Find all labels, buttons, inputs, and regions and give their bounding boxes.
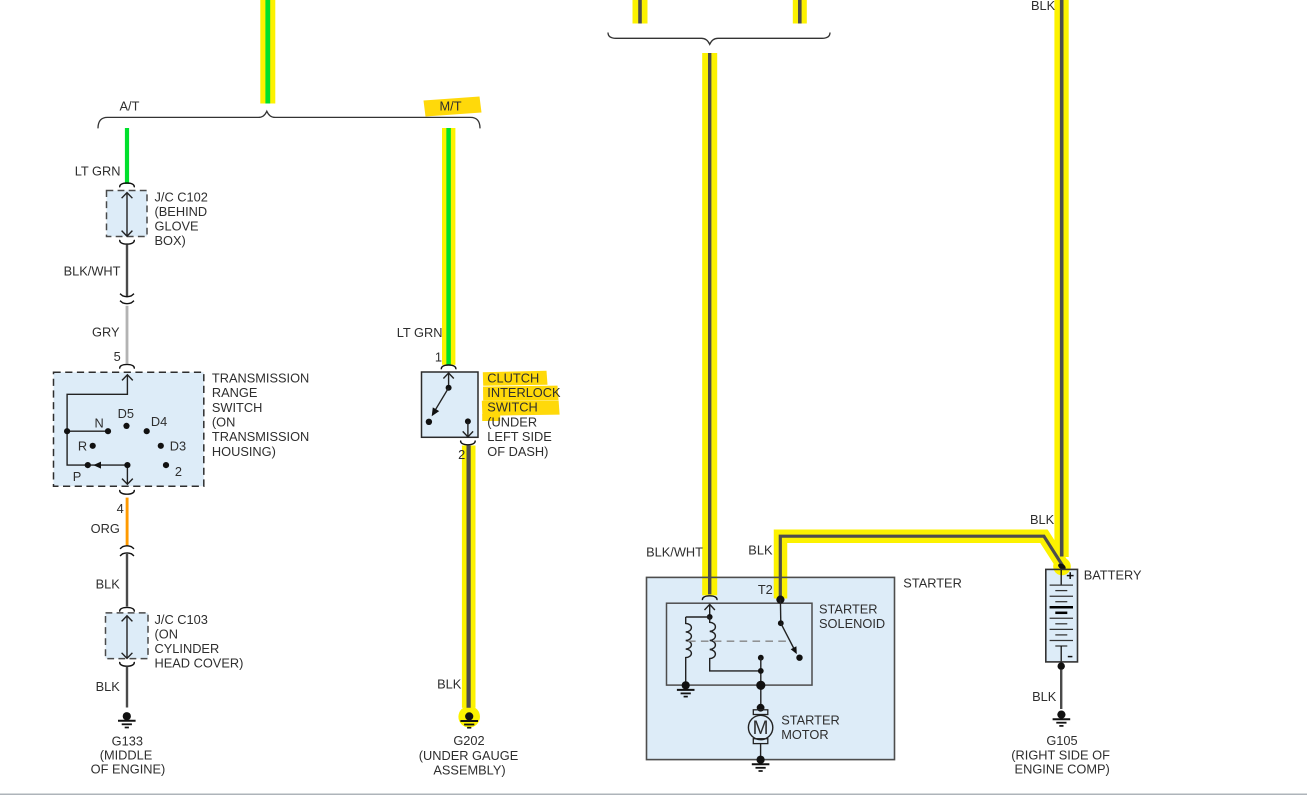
svg-text:P: P: [73, 469, 82, 484]
clutch switch right contact dot: [465, 418, 471, 424]
highlighter patch over INTERLOCK: [483, 386, 559, 401]
wire highlight: blk/wht wire to starter: [702, 53, 717, 595]
connector cup below J/C C102: [120, 240, 135, 244]
svg-text:J/C C103(ONCYLINDERHEAD COVER): J/C C103(ONCYLINDERHEAD COVER): [155, 612, 244, 670]
contact dot N: [105, 428, 111, 434]
svg-text:G133(MIDDLEOF ENGINE): G133(MIDDLEOF ENGINE): [91, 733, 166, 776]
svg-text:LT GRN: LT GRN: [397, 325, 443, 340]
wire highlight: blob over G202 ground symbol: [458, 706, 480, 728]
wire stub: top left of mid brace: [638, 0, 642, 24]
contact dot junction left: [64, 428, 70, 434]
battery minus sign: [1068, 656, 1073, 658]
starter box border: [647, 577, 895, 759]
solenoid switch movable arm: [781, 623, 795, 649]
battery top terminal: [1060, 570, 1062, 585]
wire highlight: top-left supply wire: [260, 0, 275, 104]
footer divider line: [0, 793, 1307, 795]
transmission range switch box: [54, 372, 204, 486]
wire: starter T2 to battery positive (dark core): [780, 536, 1062, 598]
brace A/T vs M/T split: [98, 111, 480, 128]
T2 post wire: [779, 600, 781, 624]
svg-text:STARTERSOLENOID: STARTERSOLENOID: [819, 602, 885, 632]
wire highlight: blob at battery positive terminal: [1053, 558, 1071, 576]
wire: lt grn supply from top (green core): [265, 0, 270, 104]
motor bottom brush cap: [753, 739, 768, 744]
solenoid entry arrow: [705, 604, 715, 617]
svg-text:BLK/WHT: BLK/WHT: [64, 264, 121, 279]
wire: A/T lt grn branch: [125, 128, 129, 184]
clutch switch top arrow: [443, 373, 453, 388]
wire: right battery feed blk (dark core): [1060, 0, 1064, 557]
brace joining stubs to blk/wht wire: [608, 33, 830, 45]
solenoid pull-in coil: [686, 617, 692, 685]
wire end blob at battery terminal: [1057, 562, 1067, 571]
clutch switch movable arm: [435, 388, 449, 411]
contact dot common: [124, 462, 130, 468]
svg-text:2: 2: [458, 447, 465, 462]
wire highlight: right blk battery feed wire: [1054, 0, 1068, 557]
svg-text:STARTER: STARTER: [903, 575, 962, 590]
connector arch at J/C C103: [120, 607, 135, 611]
battery negative terminal dot: [1058, 662, 1065, 669]
contact dot D3: [158, 443, 164, 449]
svg-text:J/C C102(BEHINDGLOVEBOX): J/C C102(BEHINDGLOVEBOX): [155, 189, 208, 248]
ground G202: [460, 712, 478, 727]
mechanical linkage dashed line: [688, 640, 786, 642]
svg-text:T2: T2: [758, 582, 773, 597]
ground at starter box bottom: [752, 756, 770, 771]
svg-text:BLK: BLK: [1032, 689, 1057, 704]
wire highlight: starter T2 to battery wire: [781, 536, 1064, 598]
svg-text:BLK: BLK: [1030, 512, 1055, 527]
svg-text:BLK/WHT: BLK/WHT: [646, 544, 703, 559]
wire stub: top right of mid brace: [798, 0, 802, 24]
battery bottom terminal: [1060, 646, 1062, 661]
clutch switch pivot dot: [446, 385, 452, 391]
contact dot D5: [123, 423, 129, 429]
clutch interlock switch box: [422, 372, 479, 437]
connector arch at transmission range switch: [120, 364, 135, 368]
clutch switch lower left contact dot: [426, 419, 432, 425]
svg-text:D3: D3: [170, 438, 186, 453]
wire BLK battery to ground: [1060, 670, 1062, 710]
solenoid switch upper contact dot: [778, 620, 784, 626]
highlighter patch over M/T label: [424, 97, 482, 117]
svg-text:ORG: ORG: [91, 521, 120, 536]
coil-motor junction dot: [758, 668, 764, 674]
svg-text:LT GRN: LT GRN: [75, 164, 121, 179]
clutch switch bottom arrow: [463, 421, 473, 437]
svg-text:A/T: A/T: [120, 99, 140, 114]
J/C C103 double arrow: [122, 616, 133, 659]
wire highlight: top stub left of mid brace: [633, 0, 648, 24]
ground G133: [118, 712, 136, 727]
T2 terminal dot: [776, 596, 784, 604]
connector cup below J/C C103: [120, 662, 135, 666]
svg-text:4: 4: [117, 501, 124, 516]
ground G105: [1053, 711, 1071, 726]
clutch switch arm arrowhead: [432, 407, 440, 416]
connector arch at solenoid feed entry: [702, 596, 717, 600]
svg-text:D5: D5: [118, 406, 134, 421]
wire to pull-in coil: [686, 616, 710, 618]
connector arch at clutch interlock switch: [441, 365, 456, 369]
motor ground wire: [760, 744, 762, 760]
svg-text:BLK: BLK: [1031, 0, 1056, 13]
motor feed contact dot: [758, 655, 764, 661]
svg-text:G105(RIGHT SIDE OFENGINE COMP): G105(RIGHT SIDE OFENGINE COMP): [1011, 733, 1110, 776]
svg-text:G202(UNDER GAUGEASSEMBLY): G202(UNDER GAUGEASSEMBLY): [419, 733, 519, 777]
solenoid top junction dot: [707, 614, 713, 620]
contact dot P: [85, 462, 91, 468]
svg-text:BLK: BLK: [96, 577, 121, 592]
junction dot on solenoid box bottom: [756, 681, 765, 690]
svg-text:M/T: M/T: [440, 99, 462, 114]
wire GRY: [126, 306, 129, 364]
svg-text:D4: D4: [151, 414, 167, 429]
svg-text:N: N: [95, 416, 104, 431]
wire highlight: top stub right of mid brace: [793, 0, 807, 24]
junction connector J/C C103 box: [106, 613, 149, 659]
wire BLK/WHT: [126, 245, 128, 298]
wire: clutch switch blk ground wire (dark core): [467, 446, 471, 708]
svg-text:R: R: [78, 438, 87, 453]
battery cell plates: [1050, 585, 1073, 646]
svg-text:1: 1: [435, 350, 442, 365]
wire: blk/wht wire down to starter (dark core): [708, 53, 711, 594]
connector cup below switch: [120, 490, 135, 494]
starter box (component fill): [647, 577, 895, 759]
starter motor top terminal dot: [757, 704, 765, 712]
svg-text:BATTERY: BATTERY: [1084, 567, 1142, 582]
junction connector J/C C102 box: [107, 191, 148, 237]
svg-text:M: M: [753, 718, 769, 739]
solenoid switch lower contact dot: [796, 655, 802, 661]
battery B1 box border: [1046, 569, 1078, 662]
wire: M/T lt grn branch (green core): [446, 128, 451, 365]
wiper arrowhead toward P: [93, 462, 101, 469]
svg-text:TRANSMISSIONRANGESWITCH(ONTRAN: TRANSMISSIONRANGESWITCH(ONTRANSMISSIONHO…: [212, 370, 309, 459]
solenoid arm arrowhead: [791, 646, 797, 654]
highlighter tail below SWITCH patch: [482, 414, 500, 421]
svg-text:BLK: BLK: [437, 676, 462, 691]
battery plus sign: [1067, 572, 1074, 579]
connector arch at J/C C102: [120, 183, 135, 187]
starter solenoid box: [667, 603, 813, 685]
motor feed wire: [760, 658, 762, 708]
motor top brush cap: [753, 710, 768, 715]
battery box fill: [1046, 569, 1078, 662]
wire highlight: M/T lt-grn wire: [442, 128, 455, 365]
switch internal wiring: [67, 375, 133, 484]
svg-text:GRY: GRY: [92, 324, 120, 339]
contact dot R: [90, 443, 96, 449]
wire highlight: clutch switch blk ground wire: [462, 446, 476, 708]
svg-text:2: 2: [175, 464, 182, 479]
contact dot D4: [144, 428, 150, 434]
wire ORG: [126, 498, 129, 546]
inline connector pair ORG-BLK: [120, 546, 134, 556]
ground inside solenoid: [677, 681, 695, 696]
starter motor M circle: [748, 715, 772, 739]
svg-text:5: 5: [114, 349, 121, 364]
wire BLK upper: [126, 553, 128, 607]
solenoid hold-in coil: [710, 617, 761, 671]
highlighter patch over CLUTCH: [483, 371, 548, 386]
contact dot 2: [163, 462, 169, 468]
J/C C102 double arrow: [122, 193, 133, 237]
svg-text:BLK: BLK: [748, 543, 773, 558]
wire BLK lower: [126, 667, 128, 708]
inline connector pair BLK/WHT-GRY: [120, 294, 134, 304]
connector cup below clutch switch: [461, 441, 476, 445]
svg-text:BLK: BLK: [96, 679, 121, 694]
highlighter patch over SWITCH: [482, 400, 560, 415]
